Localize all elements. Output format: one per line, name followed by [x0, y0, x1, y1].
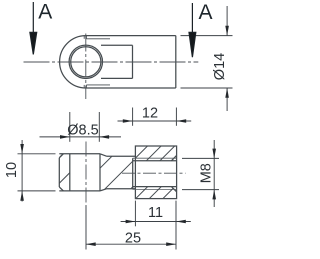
svg-text:Ø8.5: Ø8.5: [67, 122, 98, 138]
svg-text:10: 10: [4, 162, 20, 178]
svg-text:A: A: [38, 1, 52, 24]
svg-text:25: 25: [125, 230, 141, 246]
svg-text:Ø14: Ø14: [212, 53, 228, 80]
svg-text:12: 12: [142, 106, 158, 122]
svg-text:A: A: [198, 1, 212, 24]
svg-text:11: 11: [148, 205, 163, 221]
svg-text:M8: M8: [199, 163, 215, 183]
